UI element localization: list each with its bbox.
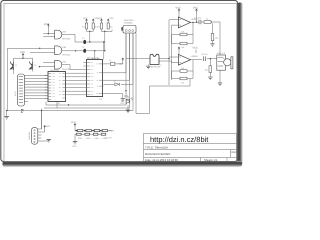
vcc symbol out node (193, 7, 198, 13)
svg-text:10k: 10k (181, 81, 184, 84)
and gate U3A (55, 30, 71, 40)
ground db9 (47, 140, 51, 143)
wire gate1 lower input (43, 36, 54, 38)
svg-text:CANON9: CANON9 (28, 131, 31, 140)
wire ac row 1 (75, 41, 105, 43)
svg-text:74HC08: 74HC08 (62, 38, 71, 41)
resistor R6 feedback1b (180, 42, 187, 49)
wire gate3 output to u1 (61, 65, 83, 70)
jumper JP1 on ground bus (21, 109, 23, 112)
wire pullup 3 drop (102, 30, 113, 32)
resistor R15 ladder shunt (77, 133, 82, 135)
resistor R3 pullup (97, 23, 102, 29)
svg-text:100k: 100k (86, 137, 90, 140)
junction dot P2 (104, 31, 105, 32)
wire u1 pin right 1 (104, 61, 123, 64)
wire jack ground stub (219, 71, 221, 83)
wire gate1 output to cap row (61, 34, 75, 42)
junction dot G3 (39, 66, 40, 67)
title block outline (144, 134, 237, 162)
svg-text:http://dzi.n.cz/8bit: http://dzi.n.cz/8bit (150, 135, 209, 144)
diode D1 (114, 80, 120, 86)
wire speaker left pin (147, 65, 149, 67)
vcc symbol opamp1 (176, 7, 181, 13)
wire left vertical rail (6, 48, 8, 110)
svg-text:U3B: U3B (62, 46, 67, 49)
svg-text:10k: 10k (181, 67, 184, 70)
junction dot P3 (75, 50, 76, 51)
wire opamp2 vcc stem (179, 50, 196, 55)
wire osc into U1 top right (103, 42, 105, 60)
vcc symbol at gate1 (44, 23, 50, 27)
wire ground bus bottom left (6, 110, 133, 112)
wire gate1 vcc drop (43, 27, 54, 34)
transistor Q2 (29, 62, 37, 71)
svg-text:1k: 1k (206, 18, 208, 21)
wire opamp2 inputs (169, 57, 178, 62)
junction dot N (196, 21, 197, 22)
wire gate3 upper input run (43, 62, 55, 64)
svg-text:74HC08: 74HC08 (62, 68, 71, 71)
wire opamp2 feedback loop (172, 60, 203, 79)
svg-text:VCC: VCC (110, 17, 115, 20)
wire vcc out node stem (196, 13, 198, 23)
svg-text:100k: 100k (78, 137, 82, 140)
svg-text:U3A: U3A (62, 30, 67, 33)
wire bus mid 3 (46, 102, 126, 109)
wire opamp1 vcc stem (178, 13, 180, 18)
wire osc into U1 top left (94, 51, 96, 60)
resistor R11 ladder (78, 130, 83, 132)
wire gate2 output (61, 49, 63, 51)
resistor R10 load2 (205, 66, 212, 73)
wire ladder vcc stem (74, 127, 76, 131)
svg-text:13 MONO: 13 MONO (124, 22, 133, 25)
resistor R14 ladder (102, 130, 107, 132)
svg-text:VCC: VCC (44, 23, 49, 26)
junction dot E (104, 50, 105, 51)
svg-text:PIC16F628A: PIC16F628A (87, 57, 100, 60)
resistor R5 feedback1 (180, 30, 187, 35)
wire Q2 emitter down (32, 70, 34, 72)
vcc symbol ladder (71, 121, 76, 126)
svg-text:Sheets 1/1: Sheets 1/1 (204, 158, 218, 162)
junction dot M (127, 110, 128, 111)
resistor R13 ladder (94, 130, 99, 132)
vcc symbol pullup 4 (107, 17, 114, 23)
svg-text:Date: 24.11.2013 13:18:38: Date: 24.11.2013 13:18:38 (145, 158, 178, 162)
junction dot H (41, 110, 42, 111)
resistor R8 feedback2 (180, 67, 187, 72)
wire gate2 lower input run (30, 51, 55, 53)
svg-text:C3 10u: C3 10u (195, 16, 201, 19)
wire load1 to ground (212, 41, 214, 44)
resistor R2 pullup (92, 23, 98, 29)
svg-text:TITLE: StereoDA: TITLE: StereoDA (145, 145, 168, 149)
wire opamp input rail 2 (171, 25, 173, 80)
junction dot K (210, 21, 211, 22)
ground load1 (210, 44, 214, 47)
svg-text:JACK 3.5: JACK 3.5 (217, 52, 226, 55)
wire pullup pair 1 join (87, 30, 94, 43)
svg-text:VCC: VCC (119, 63, 124, 66)
IC U1 PIC (83, 57, 103, 101)
wire opamp1 out coupling (201, 22, 213, 34)
svg-text:VCC: VCC (98, 17, 103, 20)
svg-text:VCC: VCC (193, 47, 198, 50)
svg-text:VCC: VCC (71, 121, 76, 124)
ground load2 (208, 77, 212, 80)
connector J1 LPT (14, 74, 28, 106)
svg-text:10k: 10k (181, 30, 184, 33)
wire ch1 down to jack (211, 22, 220, 55)
wire speaker feed (126, 58, 169, 60)
junction dot ladder 2 (84, 130, 86, 132)
capacitor C4 coupling2 (201, 53, 207, 61)
wire x1 pin3 drop (132, 33, 134, 111)
connector J2 DB9 (28, 128, 42, 145)
crystal Y1 (109, 59, 115, 65)
connector X1 jack (121, 19, 136, 33)
vcc symbol opamp2 (178, 47, 198, 51)
svg-text:VCC: VCC (83, 17, 88, 20)
svg-text:VCC: VCC (176, 7, 181, 10)
wire ladder gnd stem (74, 134, 76, 141)
vcc symbol db9 (44, 125, 51, 128)
svg-text:OUT L: OUT L (109, 130, 116, 133)
resistor R1 pullup (82, 23, 87, 29)
wire x1 pin4 outer loop (136, 33, 190, 114)
junction dot J (125, 90, 126, 91)
label ladder values (78, 137, 107, 140)
page sheet (1, 0, 238, 161)
vcc symbol pullup 2 (92, 17, 99, 23)
svg-text:74HC08: 74HC08 (62, 53, 71, 56)
resistor R16 ladder shunt (85, 133, 90, 135)
vcc symbol u1 right (119, 58, 124, 66)
op-amp U4B (178, 54, 198, 65)
svg-text:U3C: U3C (62, 61, 67, 64)
wire u2 to u1 bus (66, 73, 83, 95)
wire load2 drop (209, 59, 211, 77)
svg-text:VCC: VCC (20, 51, 25, 54)
wire ground stub left (6, 111, 8, 117)
resistor R19 series1 (204, 18, 211, 24)
ground buzzer (146, 66, 150, 69)
wire x1 pin1 drop (125, 33, 127, 105)
page background (0, 0, 244, 168)
wire db9 aux (42, 109, 49, 142)
wire speaker right pin (159, 61, 172, 62)
vcc symbol pullup 1 (83, 17, 88, 23)
wire u1 pin right 3 (104, 33, 130, 80)
page shadow right band (237, 3, 243, 166)
buzzer SP1 (150, 54, 162, 68)
junction dot F (103, 41, 104, 42)
svg-text:LM358: LM358 (191, 55, 198, 58)
and gate U3C (55, 60, 71, 71)
svg-text:14 ATX20V: 14 ATX20V (124, 19, 135, 22)
junction dot O1 (192, 22, 193, 23)
svg-text:C4 10u: C4 10u (201, 53, 207, 56)
wire pullup pair 2 join (102, 30, 109, 51)
wire opamp1 feedback loop (172, 22, 199, 43)
junction dot P4 (94, 50, 95, 51)
wire opamp1 inputs (169, 20, 178, 25)
junction dot L (210, 58, 211, 59)
svg-text:REV:: REV: (232, 151, 238, 154)
ground ladder (72, 142, 77, 149)
vcc symbol pullup 3 (98, 17, 103, 23)
ground jack (218, 83, 222, 86)
junction dot G (6, 110, 7, 111)
connector X2 stereo jack (217, 52, 233, 70)
vcc symbol transistors (20, 51, 25, 57)
svg-text:10k: 10k (215, 37, 218, 40)
op-amp U4A (178, 17, 198, 28)
wire led branch (124, 96, 128, 110)
junction dot ladder 4 (100, 130, 102, 132)
wire gate3 lower input run (40, 66, 55, 68)
wire x1 pin2 drop (129, 33, 131, 108)
wire ladder spine (75, 131, 108, 135)
wire opamp2 out to jack (207, 58, 217, 60)
resistor R17 ladder shunt (93, 133, 98, 135)
ground left rail (5, 117, 9, 120)
capacitor C1 (82, 37, 86, 44)
resistor R4 pullup (107, 23, 113, 29)
svg-text:Document Number:: Document Number: (145, 152, 171, 156)
ground u1 pin5 (120, 99, 125, 105)
svg-text:VCC: VCC (46, 125, 51, 128)
junction dot B (48, 33, 49, 34)
junction dot speaker feed (168, 58, 169, 59)
wire ladder out stub (108, 130, 113, 132)
wire vcc T to transistors (14, 57, 33, 62)
svg-text:GND: GND (72, 145, 77, 148)
wire u1 pin right 2 (104, 33, 127, 73)
and gate U3B (55, 46, 71, 57)
ground led (126, 110, 130, 113)
junction dot ladder 1 (76, 130, 78, 132)
svg-text:10k: 10k (205, 69, 208, 72)
capacitor C2 (82, 46, 86, 53)
wire db9 riser (41, 111, 43, 129)
svg-text:100k: 100k (94, 137, 98, 140)
resistor R9 feedback2b (180, 77, 187, 84)
transistor Q1 (10, 62, 18, 71)
schematic frame (4, 3, 237, 161)
page shadow bottom band (3, 161, 243, 167)
wire bus mid 2 (44, 107, 130, 109)
svg-text:OUT R: OUT R (106, 136, 113, 139)
led D2 (121, 97, 133, 103)
svg-text:10k: 10k (181, 46, 184, 49)
wire opamp input rail 1 (168, 20, 170, 85)
wire lpt to u2 bus (28, 76, 48, 99)
IC U2 74HC574 (45, 69, 66, 105)
junction dot D (89, 41, 90, 42)
wire ac row 2 (63, 50, 105, 52)
capacitor C3 coupling1 (195, 16, 201, 24)
junction dot ladder 3 (92, 130, 94, 132)
junction dot I (68, 104, 69, 105)
junction dot P1 (89, 31, 90, 32)
junction dot A (39, 48, 40, 49)
resistor R18 ladder shunt (101, 133, 106, 135)
svg-text:VCC: VCC (193, 7, 198, 10)
resistor R7 load1 (211, 34, 218, 41)
svg-text:74HC574: 74HC574 (50, 69, 60, 72)
resistor R12 ladder (86, 130, 91, 132)
wire u1 pin right 5 (104, 94, 123, 99)
wire Q1 emitter down (13, 70, 15, 74)
wire gate2 upper input run (7, 47, 54, 49)
junction dot C (22, 58, 23, 59)
wire u1 pin right 4 diode run (104, 33, 134, 84)
